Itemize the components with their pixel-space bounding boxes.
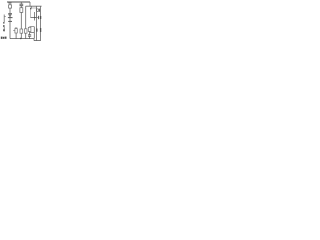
wire rail step down [29,2,31,6]
node junction bottom rail [20,38,22,40]
wire R1 top lead [9,2,11,5]
capacitor C6 plate B [28,35,31,37]
wire C1 to R2 [20,6,22,8]
battery B1 lead [3,15,5,23]
wire U1 top pin [30,6,32,8]
node F rail blob 2 [40,28,42,32]
diode D1 anode bar [8,13,12,15]
capacitor C3 plate [38,9,40,12]
wire label tick under rail [8,2,12,4]
wire bottom step [33,39,35,41]
diode D1 cathode bar [8,17,13,19]
capacitor C1 plate A [20,3,24,5]
resistor R2 [20,8,23,13]
wire top rail VCC [7,1,30,3]
wire bottom-right rail [34,40,41,42]
diode D1 triangle [9,14,12,17]
ground arrow mark [3,29,5,31]
node U1 junction [34,17,35,18]
wire R4 to bottom rail [20,33,22,38]
wire R6 loop bottom [30,31,35,34]
wire battery bottom [3,27,5,32]
resistor R3 [15,29,17,33]
capacitor C6 plate A [28,34,31,36]
op-amp U1 [31,8,37,18]
capacitor C1 plate B [20,5,24,7]
wire R3 to bottom rail [15,33,17,39]
wire C1 top lead [20,2,22,4]
wire upper-right rail [26,5,42,7]
wire bottom rail [10,38,34,40]
wire far right rail F [40,6,42,40]
capacitor C5 plate [36,29,38,32]
wire mid chain [20,12,22,29]
resistor R6 [28,27,31,31]
battery B1 plus tick [4,16,6,18]
wire C6 top lead [29,32,31,34]
wire right rail E [36,6,38,40]
capacitor C4 plate [38,16,40,19]
wire C6 bottom lead [29,36,31,38]
wire U1 inner pin [34,12,36,21]
capacitor C2 plate [8,20,12,22]
wire R3 top tick [15,27,17,29]
wire U1 bottom edge [31,17,37,19]
wire R5 to bottom rail [25,33,27,38]
text label value [1,37,7,39]
wire loop to bottom rail [33,32,35,38]
wire second mid chain [25,6,27,29]
wire R3 side tick [13,30,15,32]
transistor Q1 circle [36,9,39,12]
node F rail blob [40,16,42,19]
wire C4 tick [37,17,39,19]
wire R1 to D1 [9,8,11,13]
battery B1 plate 2 [3,25,5,27]
wire left chain down [9,22,11,39]
diode D1 center lead [9,14,11,17]
battery B1 plate 1 [3,22,5,23]
resistor R1 [9,5,12,8]
node U1 pin dot [30,8,31,9]
resistor R5 [25,29,28,33]
wire loop right side [33,27,35,33]
wire D1 to C2 [9,18,11,21]
resistor R4 [20,29,23,33]
wire R6 loop top [30,26,35,29]
